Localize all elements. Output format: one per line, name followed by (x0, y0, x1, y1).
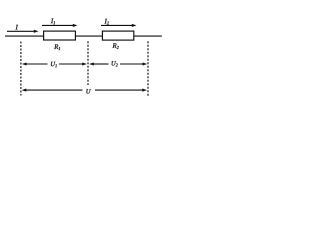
voltage arrow U (22, 89, 147, 92)
label R2 (112, 43, 118, 49)
node line middle (dashed) (87, 41, 89, 85)
label I2 (104, 19, 108, 25)
label I (15, 25, 18, 30)
wire right segment (134, 35, 162, 37)
current arrow I (7, 30, 39, 33)
label U2 (112, 61, 118, 66)
resistor R1 (44, 31, 76, 40)
current arrow I2 (101, 24, 137, 27)
label I1 (51, 19, 55, 25)
node line left (dashed) (20, 42, 22, 96)
label R1 (54, 44, 60, 50)
voltage arrow U2 (89, 62, 147, 65)
wire left segment (5, 35, 44, 37)
label U1 (51, 62, 57, 67)
current arrow I1 (42, 24, 78, 27)
voltage arrow U1 (22, 62, 87, 65)
wire middle segment (75, 35, 102, 37)
resistor R2 (102, 31, 133, 40)
node line right (dashed) (147, 41, 149, 96)
label U (86, 89, 90, 93)
